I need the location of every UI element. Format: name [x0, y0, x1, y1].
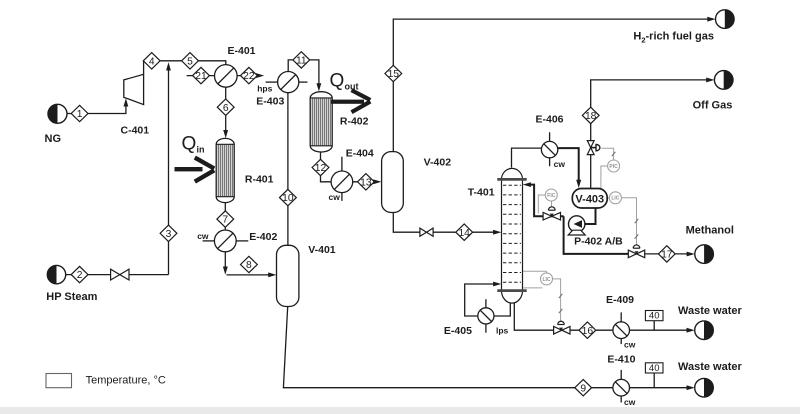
svg-text:22: 22: [243, 71, 255, 82]
label E-401: [228, 45, 256, 57]
input NG: [48, 104, 67, 123]
wire temperature tag stem E-409: [653, 321, 655, 331]
label cw E-409: [624, 339, 636, 349]
svg-text:7: 7: [222, 215, 228, 226]
label E-403: [256, 96, 284, 108]
control valve methanol LV: [628, 245, 644, 258]
node 9: [575, 380, 592, 396]
valve HP steam: [111, 269, 129, 280]
wire E-401 bottom to R-401 via node 6: [223, 87, 228, 138]
label E-406: [536, 113, 564, 125]
svg-text:LIC: LIC: [542, 277, 550, 283]
instrument signal FIC to reflux valve: [551, 201, 553, 207]
svg-text:40: 40: [649, 311, 660, 322]
column T-401 bottom head: [502, 291, 523, 303]
valve V-402 bottoms: [420, 228, 433, 236]
column T-401 bottom flange: [497, 289, 526, 292]
control valve reflux FV: [543, 207, 560, 220]
label NG: [45, 133, 62, 145]
label V-402: [424, 157, 452, 169]
wire E-403 hps inlet stub: [266, 81, 278, 83]
wire E-401 utility inlet stub to node 21: [187, 75, 215, 77]
instrument LIC V-403: [609, 192, 621, 204]
node 7: [217, 211, 234, 227]
svg-text:cw: cw: [554, 159, 566, 169]
node 16: [579, 322, 596, 338]
node 17: [658, 246, 675, 262]
label E-402: [249, 231, 277, 243]
svg-text:11: 11: [296, 56, 307, 67]
input HP Steam: [47, 265, 65, 283]
vessel V-401: [277, 245, 299, 306]
node 12: [312, 159, 329, 175]
wire E-410 to waste water with node 40: [630, 385, 695, 390]
svg-text:3: 3: [166, 229, 172, 240]
label E-410: [607, 353, 635, 365]
label Off Gas: [693, 99, 733, 111]
node 11: [293, 52, 310, 68]
pump P-402 A/B: [568, 216, 585, 235]
label cw E-404: [329, 192, 341, 202]
label Qin: [182, 134, 205, 155]
label V-403: [575, 193, 604, 205]
svg-text:Waste water: Waste water: [678, 305, 743, 317]
label Waste water upper: [678, 305, 743, 317]
svg-text:R-402: R-402: [340, 116, 369, 128]
svg-text:cw: cw: [624, 397, 636, 407]
wire E-404 to V-402 via node 13: [353, 179, 382, 184]
svg-text:14: 14: [458, 228, 470, 239]
svg-text:HP Steam: HP Steam: [46, 291, 97, 303]
wire V-403 bottom to P-402 suction: [585, 208, 596, 224]
wire T-401 bottoms to reboiler E-405: [465, 282, 511, 316]
output Waste water upper: [695, 321, 714, 340]
instrument tap T-401 to LIC: [523, 271, 547, 288]
node 4: [143, 53, 160, 69]
wire E-404 cw top stub: [341, 157, 343, 172]
svg-text:LIC: LIC: [611, 196, 619, 202]
wire E-404 cw bottom stub: [341, 192, 343, 201]
column T-401 top head: [502, 168, 523, 179]
label lps: [496, 326, 509, 336]
svg-text:Off Gas: Off Gas: [693, 99, 733, 111]
label Methanol: [686, 225, 734, 237]
wire E-406 cw top stub: [549, 132, 551, 141]
node 10: [280, 189, 297, 205]
svg-text:8: 8: [246, 260, 252, 271]
svg-text:in: in: [197, 145, 205, 155]
instrument PIC: [608, 160, 620, 172]
svg-text:4: 4: [149, 56, 155, 67]
svg-text:E-405: E-405: [444, 325, 472, 337]
svg-text:P-402 A/B: P-402 A/B: [574, 236, 623, 248]
node 13: [358, 174, 375, 190]
label cw E-406: [554, 159, 566, 169]
svg-text:Q: Q: [330, 71, 345, 92]
svg-text:cw: cw: [624, 339, 636, 349]
label E-405: [444, 325, 472, 337]
heat exchanger E-403: [278, 72, 299, 93]
label Waste water lower: [678, 361, 743, 373]
wire V-402 bottom to T-401 feed via node 14: [393, 213, 501, 235]
output Methanol: [695, 245, 714, 264]
svg-text:Waste water: Waste water: [678, 361, 743, 373]
label HP Steam: [46, 291, 97, 303]
wire V-403 top to Off Gas header via valve and node 18: [591, 78, 715, 189]
wire T-401 bottoms to E-409 via valve and node 16: [514, 300, 613, 330]
wire E-402 to V-401 with node 8: [223, 252, 277, 277]
legend temperature box: [46, 374, 72, 388]
heat exchanger E-410: [613, 379, 630, 396]
node 14: [456, 224, 473, 240]
label V-401: [308, 244, 336, 256]
wire V-402 top to H2 fuel gas header via node 15: [393, 17, 715, 152]
label H2-rich fuel gas: [633, 31, 714, 45]
svg-text:2: 2: [77, 270, 83, 281]
instrument tap PIC to V-403: [601, 166, 608, 189]
wire P-402 discharge to methanol valve: [564, 216, 629, 254]
instrument signal LIC to bottoms valve: [552, 279, 562, 321]
wire E-403 top to R-402 via node 11: [288, 60, 321, 92]
svg-text:40: 40: [649, 363, 660, 374]
svg-text:R-401: R-401: [245, 173, 274, 185]
wire E-406 to V-403: [558, 148, 581, 188]
instrument signal PIC to offgas valve: [602, 148, 616, 160]
svg-text:16: 16: [582, 326, 594, 337]
control valve bottoms LV: [554, 321, 570, 334]
label P-402 A/B: [574, 236, 623, 248]
svg-text:Temperature, °C: Temperature, °C: [86, 374, 166, 386]
label Qout: [330, 71, 359, 92]
node 18: [582, 107, 599, 123]
svg-text:V-401: V-401: [308, 244, 336, 256]
svg-text:E-406: E-406: [536, 113, 564, 125]
svg-text:hps: hps: [257, 83, 272, 93]
svg-text:9: 9: [580, 383, 586, 394]
column T-401 trays: [503, 185, 521, 282]
wire V-401 bottom to E-410 via node 9: [283, 307, 613, 388]
node 8: [241, 256, 258, 272]
column T-401 shell: [502, 179, 523, 290]
svg-text:10: 10: [282, 193, 294, 204]
heat exchanger E-404: [331, 171, 353, 193]
node 21: [193, 67, 210, 83]
wire E-401 to node 22 hps export arrow: [237, 73, 264, 78]
wire E-402 cw left stub: [203, 240, 215, 242]
svg-text:V-402: V-402: [424, 157, 452, 169]
label cw E-402: [197, 231, 209, 241]
svg-text:15: 15: [388, 69, 400, 80]
wire E-405 lps bottom stub: [485, 324, 487, 333]
output H2-rich fuel gas: [716, 10, 735, 29]
svg-text:1: 1: [77, 109, 83, 120]
wire E-409 to waste water with node 40: [630, 328, 695, 333]
node 6: [217, 99, 234, 115]
wire E-409 cw bottom stub: [620, 339, 622, 345]
label T-401: [468, 186, 495, 198]
wire temperature tag stem E-410: [653, 373, 655, 388]
svg-text:21: 21: [195, 71, 207, 82]
svg-text:T-401: T-401: [468, 186, 495, 198]
label E-404: [346, 148, 374, 160]
svg-text:FIC: FIC: [547, 193, 555, 199]
vessel V-402: [382, 152, 404, 213]
instrument tap FIC reflux: [538, 195, 545, 214]
bottom gray band: [0, 407, 800, 414]
vessel V-403: [572, 189, 607, 209]
wire E-405 lps top stub: [485, 299, 487, 308]
svg-text:out: out: [345, 82, 359, 92]
legend temperature text: [86, 374, 166, 386]
control valve offgas PV: [587, 141, 600, 155]
node 3: [160, 225, 177, 241]
wire E-402 cw right stub: [236, 240, 248, 242]
svg-text:cw: cw: [329, 192, 341, 202]
svg-text:E-404: E-404: [346, 148, 374, 160]
wire HP Steam to riser: [66, 274, 169, 276]
svg-text:V-403: V-403: [575, 193, 604, 205]
svg-text:5: 5: [187, 56, 193, 67]
label R-401: [245, 173, 274, 185]
output Off Gas: [714, 71, 733, 90]
instrument LIC T-401: [541, 273, 553, 285]
wire E-409 cw top stub: [620, 312, 622, 322]
svg-text:PIC: PIC: [609, 164, 618, 170]
svg-text:H2-rich fuel gas: H2-rich fuel gas: [633, 31, 714, 45]
wire E-406 cw bottom stub: [549, 158, 551, 166]
output Waste water lower: [695, 378, 714, 397]
svg-text:17: 17: [661, 250, 673, 261]
label hps: [257, 83, 272, 93]
svg-text:E-403: E-403: [256, 96, 284, 108]
reactor R-402: [310, 92, 332, 152]
svg-text:C-401: C-401: [121, 125, 150, 137]
column T-401 top flange: [497, 178, 526, 181]
node 1: [71, 105, 88, 121]
svg-text:lps: lps: [496, 326, 509, 336]
wire methanol valve to node 17 and product: [644, 252, 695, 257]
svg-text:E-401: E-401: [228, 45, 256, 57]
wire T-401 overhead to E-406: [512, 148, 542, 167]
node 22: [241, 67, 258, 83]
temperature tag 40 E-410: [645, 363, 663, 374]
heat output Qout arrow: [331, 90, 370, 112]
wire NG to C-401 inlet: [67, 98, 128, 113]
svg-text:E-402: E-402: [249, 231, 277, 243]
instrument tap V-403 to LIC: [607, 197, 609, 199]
wire E-410 cw bottom stub: [620, 396, 622, 403]
wire R-401 bottom to E-402 via node 7: [224, 203, 226, 230]
label C-401: [121, 125, 150, 137]
temperature tag 40 E-409: [645, 311, 663, 322]
label R-402: [340, 116, 369, 128]
node 2: [71, 266, 88, 282]
node 5: [182, 53, 199, 69]
heat exchanger E-405: [478, 308, 494, 324]
svg-text:18: 18: [585, 111, 597, 122]
svg-text:E-409: E-409: [606, 294, 634, 306]
wire R-402 bottom to E-404 via node 12: [321, 152, 332, 182]
wire reflux to T-401 top: [523, 182, 564, 216]
svg-text:E-410: E-410: [607, 353, 635, 365]
wire C-401 outlet to E-401 top via nodes 4 and 5: [144, 61, 226, 75]
svg-text:12: 12: [315, 163, 327, 174]
heat exchanger E-409: [613, 322, 630, 339]
wire E-410 cw top stub: [620, 370, 622, 380]
heat exchanger E-406: [541, 141, 557, 157]
svg-text:6: 6: [223, 103, 229, 114]
wire steam riser node 3 to top header: [166, 62, 171, 274]
svg-text:NG: NG: [45, 133, 62, 145]
heat input Qin arrow: [175, 158, 215, 182]
svg-text:cw: cw: [197, 231, 209, 241]
svg-text:13: 13: [360, 177, 372, 188]
compressor C-401: [124, 74, 144, 104]
heat exchanger E-401: [215, 65, 238, 88]
node 15: [385, 65, 402, 81]
instrument FIC: [545, 189, 557, 201]
instrument signal LIC to methanol valve: [621, 198, 638, 245]
label cw E-410: [624, 397, 636, 407]
svg-text:Methanol: Methanol: [686, 225, 734, 237]
svg-text:Q: Q: [182, 134, 197, 155]
wire E-403 right stub: [299, 81, 308, 83]
reactor R-401: [216, 138, 234, 202]
heat exchanger E-402: [214, 230, 236, 252]
wire V-401 top to E-403 via node 10: [287, 93, 289, 246]
label E-409: [606, 294, 634, 306]
